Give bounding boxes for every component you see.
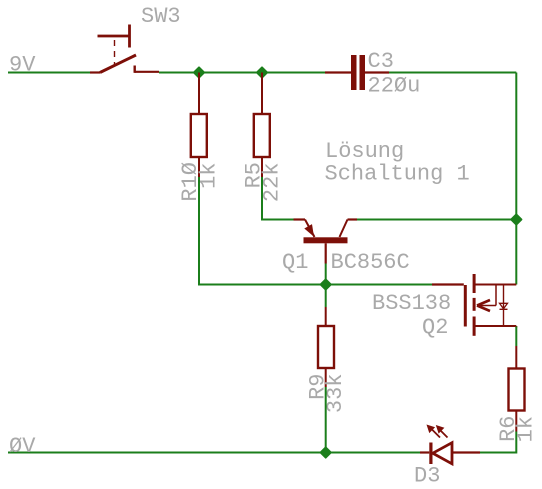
resistor R9 [318, 307, 334, 387]
svg-text:SW3: SW3 [141, 4, 181, 29]
svg-text:1k: 1k [197, 163, 222, 189]
svg-text:Lösung: Lösung [325, 139, 404, 164]
svg-text:9V: 9V [9, 53, 36, 78]
wire R9 bottom to 0V rail [325, 387, 327, 453]
svg-text:C3: C3 [368, 49, 394, 74]
svg-text:Q2: Q2 [422, 315, 448, 340]
svg-text:Q1: Q1 [282, 250, 308, 275]
wire R5 bottom to Q1 emitter [262, 177, 294, 220]
svg-text:33k: 33k [323, 374, 348, 414]
wire 9V rail left segment [8, 72, 91, 74]
wire Q2 source to R6 [515, 327, 517, 347]
wire LED to R6 bottom corner [480, 432, 516, 453]
wire gate net [326, 284, 432, 286]
wire Q1 base to junction [325, 264, 327, 285]
junction node collector right rail [511, 214, 522, 225]
svg-text:BSS138: BSS138 [372, 291, 451, 316]
wire right rail vertical [515, 73, 517, 285]
resistor R6 [509, 346, 525, 432]
svg-text:1k: 1k [514, 416, 539, 442]
svg-text:ØV: ØV [9, 434, 36, 459]
diode D3 LED [420, 425, 480, 465]
svg-text:BC856C: BC856C [331, 250, 410, 275]
resistor R5 [254, 73, 270, 178]
junction node R9 0V rail [320, 447, 331, 458]
svg-text:22k: 22k [260, 163, 285, 203]
switch SW3 [90, 25, 159, 73]
svg-text:22Øu: 22Øu [368, 74, 421, 99]
transistor Q1 PNP BC856C [294, 220, 358, 264]
resistor R10 [191, 73, 207, 178]
wire 9V rail right segment [389, 72, 516, 74]
wire R10 bottom to junction [199, 177, 326, 285]
junction node at 9V and R10 [194, 67, 205, 78]
wire 9V rail middle segment [159, 72, 326, 74]
svg-text:Schaltung 1: Schaltung 1 [325, 162, 470, 187]
wire Q1 collector to right rail [357, 219, 516, 221]
wire 0V rail left [8, 452, 420, 454]
junction node base R9 gate [320, 279, 331, 290]
capacitor C3 [325, 55, 389, 90]
wire junction to R9 top [325, 285, 327, 308]
svg-text:D3: D3 [414, 464, 440, 489]
mosfet Q2 BSS138 [432, 274, 516, 336]
junction node at 9V and R5 [257, 67, 268, 78]
